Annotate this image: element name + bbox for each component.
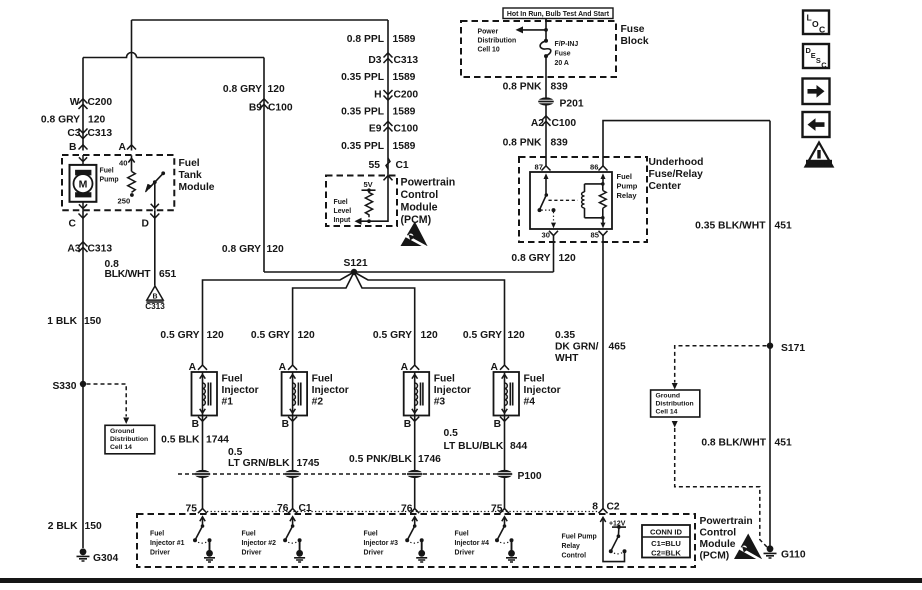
svg-text:G110: G110 bbox=[781, 550, 806, 561]
svg-text:451: 451 bbox=[775, 221, 792, 232]
wire fan S121 to injector 3 bbox=[354, 272, 415, 365]
svg-text:120: 120 bbox=[267, 244, 284, 255]
connector pass-through dotted line bbox=[207, 511, 598, 513]
svg-text:Driver: Driver bbox=[455, 550, 475, 557]
svg-text:B9: B9 bbox=[249, 103, 262, 114]
label 0.5 LT BLU/BLK 844 bbox=[444, 428, 528, 452]
underhood fuse/relay center dashed box bbox=[519, 157, 647, 242]
svg-text:S171: S171 bbox=[781, 343, 805, 354]
button DESC bbox=[803, 44, 829, 70]
svg-text:Fuel: Fuel bbox=[100, 168, 114, 175]
svg-text:Injector #3: Injector #3 bbox=[364, 540, 399, 547]
svg-text:Underhood: Underhood bbox=[649, 157, 704, 168]
svg-text:Ground: Ground bbox=[110, 428, 135, 435]
pin C label and arrow bbox=[69, 214, 88, 230]
svg-text:G304: G304 bbox=[93, 553, 118, 564]
svg-text:C200: C200 bbox=[394, 90, 419, 101]
svg-text:B: B bbox=[192, 419, 199, 430]
PCM bottom dashed box bbox=[137, 514, 695, 567]
label Underhood Fuse/Relay Center bbox=[649, 157, 704, 192]
svg-text:120: 120 bbox=[559, 253, 576, 264]
driver fuel injector #2 bbox=[242, 517, 306, 562]
svg-text:Driver: Driver bbox=[150, 550, 170, 557]
pin 76 C1 (inj2) bbox=[277, 503, 312, 514]
splice S330 bbox=[52, 381, 86, 392]
wire S121 rail bbox=[264, 271, 554, 273]
svg-text:0.5 GRY: 0.5 GRY bbox=[463, 330, 502, 341]
dashed reference ground distribution to G110 bbox=[672, 421, 768, 548]
label 0.8 PNK 839 bbox=[503, 138, 568, 149]
svg-text:Control: Control bbox=[401, 189, 439, 201]
wire fan S121 to injector 1 bbox=[203, 272, 355, 365]
svg-text:Fuel: Fuel bbox=[334, 199, 348, 206]
svg-text:Injector: Injector bbox=[222, 385, 259, 396]
svg-text:120: 120 bbox=[298, 330, 315, 341]
wire C down from fuel pump bbox=[82, 210, 84, 548]
label 0.35 DK GRN/WHT 465 bbox=[555, 330, 626, 364]
fuse block dashed box bbox=[461, 21, 616, 77]
label Fuel Pump Relay bbox=[617, 172, 638, 200]
svg-text:Control: Control bbox=[700, 528, 737, 539]
ground G110 bbox=[764, 545, 806, 560]
power distribution arrow bbox=[516, 26, 548, 33]
svg-text:Distribution: Distribution bbox=[656, 401, 694, 408]
svg-text:651: 651 bbox=[159, 269, 176, 280]
svg-text:D: D bbox=[142, 219, 149, 230]
wire fuel pump B horizontal with hop over A wire bbox=[83, 53, 264, 58]
connector E9 C100 bbox=[369, 121, 418, 134]
svg-text:Injector: Injector bbox=[434, 385, 471, 396]
relay pin 86 bbox=[590, 163, 607, 172]
svg-text:1589: 1589 bbox=[393, 107, 416, 118]
fuel pump relay K1 box bbox=[530, 172, 612, 229]
svg-text:Distribution: Distribution bbox=[110, 436, 148, 443]
CONN ID legend box bbox=[642, 525, 690, 558]
svg-text:0.5 GRY: 0.5 GRY bbox=[373, 330, 412, 341]
svg-text:C100: C100 bbox=[394, 124, 419, 135]
svg-text:M: M bbox=[79, 179, 88, 191]
svg-text:40: 40 bbox=[119, 159, 127, 168]
label 0.5 GRY 120 (inj2) bbox=[251, 330, 315, 341]
wire right side 0.35 BLK/WHT down to G110 bbox=[769, 121, 771, 546]
pin arrow into PCM bbox=[384, 176, 393, 181]
wire 0.8 PPL vertical to PCM pin 55 bbox=[387, 20, 389, 176]
svg-text:C: C bbox=[69, 219, 77, 230]
svg-text:20 A: 20 A bbox=[555, 60, 569, 67]
svg-text:BLK/WHT: BLK/WHT bbox=[105, 269, 152, 280]
connector D3 C313 bbox=[368, 53, 418, 66]
svg-text:Block: Block bbox=[621, 36, 649, 47]
label 2 BLK 150 bbox=[48, 521, 102, 532]
splice P201 bbox=[538, 97, 584, 109]
button next (right arrow) bbox=[803, 79, 830, 105]
svg-text:Fuel: Fuel bbox=[524, 374, 545, 385]
svg-text:(PCM): (PCM) bbox=[700, 551, 730, 562]
svg-text:86: 86 bbox=[590, 163, 598, 172]
svg-text:Driver: Driver bbox=[242, 550, 262, 557]
label 0.8 GRY 120 (B9 wire) bbox=[223, 84, 285, 95]
svg-text:C2: C2 bbox=[607, 502, 620, 513]
PCM (fuel level input) dashed box bbox=[326, 176, 397, 227]
svg-text:Injector: Injector bbox=[312, 385, 349, 396]
svg-text:F/P-INJ: F/P-INJ bbox=[555, 41, 579, 48]
label 0.8 GRY 120 (left wire) bbox=[41, 115, 106, 126]
relay coil rails and junction dots bbox=[585, 182, 605, 220]
svg-text:C200: C200 bbox=[88, 97, 113, 108]
svg-text:B: B bbox=[282, 419, 289, 430]
label Fuel Level Input bbox=[334, 199, 352, 224]
svg-text:L: L bbox=[807, 13, 812, 23]
ESD warning symbol (bottom PCM) bbox=[734, 534, 763, 562]
label 0.5 GRY 120 (inj4) bbox=[463, 330, 525, 341]
fuel injector #1 bbox=[189, 362, 259, 430]
svg-text:Fuel Pump: Fuel Pump bbox=[562, 534, 597, 541]
label 0.5 LT GRN/BLK 1745 bbox=[228, 447, 320, 469]
svg-text:0.8 GRY: 0.8 GRY bbox=[41, 115, 80, 126]
svg-text:0.35 BLK/WHT: 0.35 BLK/WHT bbox=[695, 221, 766, 232]
button previous (left arrow) bbox=[803, 112, 830, 137]
fuel injector #2 bbox=[279, 362, 349, 430]
svg-text:B: B bbox=[152, 294, 157, 301]
svg-text:Fuel: Fuel bbox=[242, 531, 256, 538]
fuel pump motor M1 bbox=[70, 155, 97, 210]
svg-text:DK GRN/: DK GRN/ bbox=[555, 342, 599, 353]
splice grommet P100 inj3 bbox=[407, 470, 423, 478]
label 0.8 GRY 120 (relay 30) bbox=[511, 253, 576, 264]
label 0.35 PPL 1589 bbox=[341, 141, 416, 152]
svg-text:150: 150 bbox=[85, 521, 102, 532]
svg-text:Powertrain: Powertrain bbox=[700, 516, 753, 527]
svg-text:S121: S121 bbox=[344, 258, 368, 269]
svg-text:1 BLK: 1 BLK bbox=[47, 316, 77, 327]
connector W C200 bbox=[70, 97, 113, 109]
svg-text:0.8 PNK: 0.8 PNK bbox=[503, 82, 542, 93]
label Powertrain Control Module (PCM) bottom bbox=[700, 516, 753, 562]
pin 76 (inj3) bbox=[401, 504, 419, 515]
wire D down from sender bbox=[154, 210, 156, 285]
svg-text:Fuel: Fuel bbox=[364, 531, 378, 538]
label 0.5 BLK 1744 bbox=[161, 435, 229, 446]
wire top horizontal PCM55 to fuel tank A bbox=[132, 19, 389, 21]
svg-text:C1: C1 bbox=[299, 503, 312, 514]
svg-text:1744: 1744 bbox=[206, 435, 229, 446]
svg-text:Fuel: Fuel bbox=[179, 158, 200, 169]
fuel injector #3 bbox=[401, 362, 471, 430]
wire inj1 B down to PCM pin 75 bbox=[202, 416, 204, 509]
svg-text:C313: C313 bbox=[145, 302, 165, 311]
svg-text:1746: 1746 bbox=[418, 454, 441, 465]
svg-text:S330: S330 bbox=[52, 381, 76, 392]
svg-text:451: 451 bbox=[775, 438, 792, 449]
svg-text:Power: Power bbox=[478, 29, 499, 36]
wire relay 30 down to S121 rail bbox=[553, 236, 555, 273]
relay pin 87 bbox=[535, 163, 551, 172]
svg-text:0.35 PPL: 0.35 PPL bbox=[341, 141, 384, 152]
svg-text:C313: C313 bbox=[394, 55, 419, 66]
svg-text:Tank: Tank bbox=[179, 170, 203, 181]
svg-text:C: C bbox=[819, 25, 825, 35]
svg-text:Fuse: Fuse bbox=[621, 24, 645, 35]
svg-text:Powertrain: Powertrain bbox=[401, 177, 456, 189]
svg-text:Center: Center bbox=[649, 181, 682, 192]
svg-text:120: 120 bbox=[268, 84, 285, 95]
svg-text:C1: C1 bbox=[396, 160, 409, 171]
label 0.8 GRY 120 (left of S121) bbox=[222, 244, 284, 255]
svg-text:5V: 5V bbox=[364, 180, 373, 189]
label 0.35 PPL 1589 bbox=[341, 107, 416, 118]
svg-text:75: 75 bbox=[186, 504, 198, 515]
connector A3 C313 bbox=[67, 242, 112, 255]
fuel level sender resistor 40-250 bbox=[118, 155, 136, 205]
label 0.35 PPL 1589 bbox=[341, 72, 416, 83]
pin 55 C1 jog bbox=[369, 158, 409, 171]
svg-text:Hot In Run, Bulb Test And Star: Hot In Run, Bulb Test And Start bbox=[507, 11, 610, 18]
dashed reference S171 to ground distribution bbox=[672, 346, 767, 390]
wire inj2 B down to PCM pin 76 bbox=[292, 416, 294, 509]
svg-text:0.35 PPL: 0.35 PPL bbox=[341, 72, 384, 83]
svg-text:Module: Module bbox=[401, 202, 438, 214]
svg-text:#1: #1 bbox=[222, 397, 234, 408]
svg-text:C100: C100 bbox=[552, 118, 577, 129]
wire relay 85 down to PCM pin 8 bbox=[602, 236, 604, 510]
svg-text:Fuse: Fuse bbox=[555, 51, 571, 58]
svg-text:0.5 GRY: 0.5 GRY bbox=[160, 330, 199, 341]
svg-text:Distribution: Distribution bbox=[478, 38, 517, 45]
svg-text:Control: Control bbox=[562, 553, 587, 560]
svg-text:8: 8 bbox=[592, 502, 598, 513]
pin A label and arrow bbox=[119, 142, 137, 153]
svg-text:Fuse/Relay: Fuse/Relay bbox=[649, 169, 704, 180]
svg-text:120: 120 bbox=[508, 330, 525, 341]
svg-text:0.5: 0.5 bbox=[444, 428, 459, 439]
svg-text:Cell 14: Cell 14 bbox=[656, 409, 678, 416]
wire fan S121 to injector 2 bbox=[293, 272, 354, 365]
relay pin 86 internal arrow bbox=[601, 173, 606, 184]
svg-text:465: 465 bbox=[609, 342, 626, 353]
svg-text:A2: A2 bbox=[531, 118, 544, 129]
svg-text:0.5 PNK/BLK: 0.5 PNK/BLK bbox=[349, 454, 413, 465]
bottom page rule bbox=[0, 578, 922, 583]
wire from hot box into fuse bbox=[545, 19, 547, 41]
svg-text:1589: 1589 bbox=[393, 141, 416, 152]
svg-text:120: 120 bbox=[207, 330, 224, 341]
svg-text:0.8 PNK: 0.8 PNK bbox=[503, 138, 542, 149]
svg-text:76: 76 bbox=[277, 503, 289, 514]
svg-text:0.5: 0.5 bbox=[228, 447, 243, 458]
svg-text:Fuel: Fuel bbox=[434, 374, 455, 385]
ground triangle B C313 bbox=[145, 286, 165, 311]
svg-text:O: O bbox=[812, 19, 819, 29]
svg-text:S: S bbox=[816, 56, 821, 65]
label 0.8 BLK/WHT 451 bbox=[701, 438, 792, 449]
relay pin 85 bbox=[591, 231, 608, 240]
driver fuel injector #3 bbox=[364, 517, 428, 562]
PCM internal 5V pullup circuit bbox=[355, 176, 389, 225]
svg-text:120: 120 bbox=[88, 115, 105, 126]
label Power Distribution Cell 10 bbox=[478, 29, 517, 54]
wire fan S121 to injector 4 bbox=[354, 272, 505, 365]
connector C3 C313 bbox=[67, 128, 112, 139]
P100 pass-through dashed line bbox=[178, 473, 514, 475]
driver fuel injector #4 bbox=[455, 517, 518, 562]
svg-text:1589: 1589 bbox=[393, 72, 416, 83]
label 0.5 GRY 120 (inj3) bbox=[373, 330, 438, 341]
svg-text:Injector #1: Injector #1 bbox=[150, 540, 185, 547]
label 0.8 BLK/WHT 651 bbox=[105, 259, 177, 280]
dashed reference S330 to ground distribution bbox=[87, 384, 130, 424]
svg-text:Injector #4: Injector #4 bbox=[455, 540, 490, 547]
ESD warning symbol (top PCM) bbox=[401, 222, 430, 249]
connector H C200 bbox=[374, 90, 418, 101]
svg-text:30: 30 bbox=[542, 231, 550, 240]
svg-text:0.35 PPL: 0.35 PPL bbox=[341, 107, 384, 118]
svg-text:Cell 10: Cell 10 bbox=[478, 47, 500, 54]
wire B vertical to fuel pump bbox=[82, 58, 84, 151]
svg-text:0.8 GRY: 0.8 GRY bbox=[222, 244, 261, 255]
svg-text:#4: #4 bbox=[524, 397, 536, 408]
svg-text:C1=BLU: C1=BLU bbox=[651, 539, 681, 548]
svg-text:P201: P201 bbox=[560, 99, 584, 110]
svg-text:Module: Module bbox=[179, 182, 215, 193]
svg-text:0.5 BLK: 0.5 BLK bbox=[161, 435, 200, 446]
svg-text:Fuel: Fuel bbox=[617, 172, 632, 181]
svg-text:Relay: Relay bbox=[617, 191, 638, 200]
svg-text:A3: A3 bbox=[67, 244, 80, 255]
svg-text:OBD II: OBD II bbox=[811, 161, 827, 167]
svg-text:C313: C313 bbox=[88, 244, 113, 255]
wire relay 86 up and over to right side bbox=[603, 121, 770, 166]
pin 8 C2 (relay control) bbox=[592, 502, 620, 514]
svg-text:0.8 GRY: 0.8 GRY bbox=[223, 84, 262, 95]
svg-text:Injector #2: Injector #2 bbox=[242, 540, 277, 547]
fuel level sender wiper switch bbox=[146, 171, 166, 209]
label Fuse Block bbox=[621, 24, 649, 47]
svg-text:+12V: +12V bbox=[609, 520, 626, 527]
svg-text:1745: 1745 bbox=[297, 458, 320, 469]
label 0.8 PPL 1589 bbox=[347, 34, 416, 45]
svg-text:W: W bbox=[70, 97, 80, 108]
svg-text:0.35: 0.35 bbox=[555, 330, 575, 341]
svg-text:Input: Input bbox=[334, 217, 352, 224]
svg-text:E9: E9 bbox=[369, 124, 382, 135]
svg-text:85: 85 bbox=[591, 231, 600, 240]
ground distribution cell 14 box (left) bbox=[105, 425, 155, 454]
svg-text:LT GRN/BLK: LT GRN/BLK bbox=[228, 458, 290, 469]
wire 0.8 PNK down to relay bbox=[545, 56, 547, 166]
fuse F/P-INJ 20A bbox=[540, 39, 578, 67]
svg-text:0.8 PPL: 0.8 PPL bbox=[347, 34, 384, 45]
svg-text:2 BLK: 2 BLK bbox=[48, 521, 78, 532]
svg-text:0.5 GRY: 0.5 GRY bbox=[251, 330, 290, 341]
label 0.5 PNK/BLK 1746 bbox=[349, 454, 441, 465]
wire inj3 B down to PCM pin 76 bbox=[414, 416, 416, 509]
svg-text:P100: P100 bbox=[518, 471, 542, 482]
svg-text:55: 55 bbox=[369, 160, 381, 171]
svg-text:0.8 BLK/WHT: 0.8 BLK/WHT bbox=[701, 438, 766, 449]
fuel injector #4 bbox=[490, 362, 560, 430]
svg-text:B: B bbox=[494, 419, 501, 430]
label 1 BLK 150 bbox=[47, 316, 101, 327]
relay mechanical link bbox=[549, 199, 578, 201]
wire 0.8 GRY B9-C100 vertical bbox=[263, 58, 265, 273]
svg-text:Driver: Driver bbox=[364, 550, 384, 557]
svg-text:839: 839 bbox=[551, 82, 568, 93]
svg-text:A: A bbox=[119, 142, 127, 153]
pin B label and arrow bbox=[69, 142, 88, 153]
pin D label and arrow bbox=[142, 214, 160, 230]
svg-text:1589: 1589 bbox=[393, 34, 416, 45]
relay switch contact bbox=[538, 173, 557, 228]
svg-text:H: H bbox=[374, 90, 381, 101]
label Fuel Tank Module bbox=[179, 158, 215, 193]
svg-text:Pump: Pump bbox=[617, 182, 638, 191]
relay coil shunt resistor bbox=[599, 184, 606, 218]
svg-text:844: 844 bbox=[510, 441, 527, 452]
label Fuel Pump bbox=[100, 168, 119, 184]
svg-text:C3: C3 bbox=[67, 128, 80, 139]
pin 75 (inj4) bbox=[491, 504, 509, 515]
OBD II badge bbox=[806, 143, 833, 167]
button LOC bbox=[803, 11, 829, 35]
svg-text:C313: C313 bbox=[88, 128, 113, 139]
svg-text:Fuel: Fuel bbox=[222, 374, 243, 385]
ground distribution cell 14 box (right) bbox=[651, 390, 700, 417]
svg-text:Fuel: Fuel bbox=[150, 531, 164, 538]
splice S121 bbox=[344, 258, 368, 275]
svg-text:C2=BLK: C2=BLK bbox=[651, 548, 681, 557]
svg-text:WHT: WHT bbox=[555, 353, 579, 364]
svg-text:Cell 14: Cell 14 bbox=[110, 444, 132, 451]
svg-text:C: C bbox=[821, 61, 827, 70]
svg-text:C100: C100 bbox=[268, 103, 293, 114]
svg-text:Ground: Ground bbox=[656, 393, 681, 400]
label 0.5 GRY 120 (inj1) bbox=[160, 330, 224, 341]
driver fuel pump relay control bbox=[562, 517, 627, 561]
svg-text:CONN ID: CONN ID bbox=[650, 528, 683, 537]
svg-text:LT BLU/BLK: LT BLU/BLK bbox=[444, 441, 504, 452]
relay coil bbox=[582, 184, 585, 218]
svg-text:Module: Module bbox=[700, 539, 736, 550]
Hot In Run label box bbox=[503, 8, 613, 19]
splice grommet P100 inj2 bbox=[285, 470, 301, 478]
label Powertrain Control Module (PCM) bbox=[401, 177, 456, 227]
svg-text:D3: D3 bbox=[368, 55, 381, 66]
fuel tank module dashed box bbox=[62, 155, 174, 210]
svg-text:120: 120 bbox=[421, 330, 438, 341]
splice grommet P100 inj1 bbox=[195, 470, 211, 478]
svg-text:#3: #3 bbox=[434, 397, 446, 408]
svg-text:0.8 GRY: 0.8 GRY bbox=[511, 253, 550, 264]
svg-text:Fuel: Fuel bbox=[312, 374, 333, 385]
svg-text:#2: #2 bbox=[312, 397, 324, 408]
svg-text:Fuel: Fuel bbox=[455, 531, 469, 538]
wire inj4 B down to PCM pin 75 bbox=[504, 416, 506, 509]
svg-text:250: 250 bbox=[118, 197, 131, 206]
svg-text:B: B bbox=[404, 419, 411, 430]
relay pin 85 internal arrow bbox=[601, 218, 606, 229]
connector B9 C100 bbox=[249, 99, 293, 114]
connector A2 C100 bbox=[531, 116, 577, 129]
label 0.35 BLK/WHT 451 bbox=[695, 221, 792, 232]
label 0.8 PNK 839 bbox=[503, 82, 568, 93]
ground G304 bbox=[77, 548, 119, 564]
svg-text:Relay: Relay bbox=[562, 543, 581, 550]
splice S171 bbox=[767, 343, 806, 355]
svg-text:Injector: Injector bbox=[524, 385, 561, 396]
svg-text:Level: Level bbox=[334, 208, 352, 215]
svg-text:839: 839 bbox=[551, 138, 568, 149]
svg-text:Pump: Pump bbox=[100, 177, 119, 184]
